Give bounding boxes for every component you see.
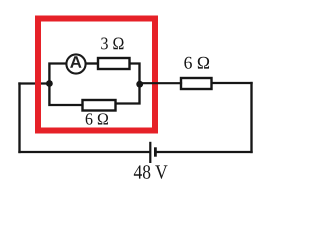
- resistor R2 6-ohm box (parallel branch): [83, 100, 116, 111]
- wire: series resistor to right outer vertical: [212, 82, 252, 84]
- wire: right outer vertical: [250, 83, 252, 152]
- wire: 3-ohm resistor to right node: [130, 64, 140, 85]
- wire: left node to outer left: [20, 82, 48, 84]
- battery BT1 short plate: [154, 147, 157, 156]
- red highlight rectangle: [38, 19, 155, 131]
- battery BT1 long plate: [149, 142, 151, 163]
- resistor R1 3-ohm box: [98, 58, 130, 69]
- node: left junction: [46, 80, 53, 87]
- wire: right node to series resistor (over red band): [141, 82, 181, 84]
- wire: ammeter to 3-ohm resistor: [87, 62, 99, 64]
- ammeter U1 circle: [66, 54, 85, 73]
- wire: bottom rail left of battery: [20, 151, 150, 153]
- label 6 ohm (parallel): [86, 113, 108, 124]
- resistor R3 6-ohm box (series): [181, 78, 212, 89]
- wire: bottom rail right of battery: [157, 151, 252, 153]
- label 48 V: [134, 165, 168, 179]
- label 6 ohm (series): [184, 57, 209, 69]
- wire: bottom branch left riser to 6-ohm resistor: [49, 84, 82, 106]
- wire: 6-ohm resistor right to right node: [116, 84, 140, 104]
- ammeter U1 letter A: [70, 56, 81, 67]
- wire: left outer vertical: [18, 84, 20, 153]
- wire: top branch left riser to ammeter: [49, 64, 65, 84]
- label 3 ohm: [101, 38, 123, 50]
- node: right junction: [136, 81, 143, 88]
